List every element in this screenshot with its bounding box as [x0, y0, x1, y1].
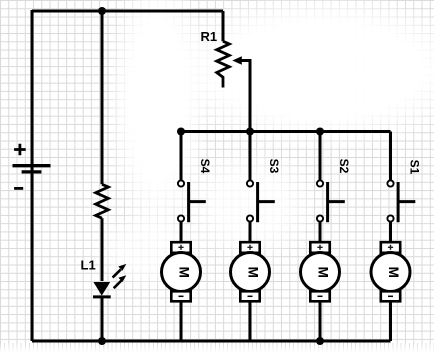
- wire motor M1 to bottom bus: [389, 301, 392, 341]
- wire R1 wiper to switch bus: [241, 61, 251, 132]
- wire motor M3 to bottom bus: [249, 301, 252, 341]
- svg-text:M: M: [315, 267, 330, 278]
- svg-text:S1: S1: [408, 160, 422, 175]
- node junction top at LED branch: [98, 7, 106, 15]
- wire S2 to motor M2: [319, 222, 322, 242]
- wire motor M4 to bottom bus: [180, 301, 183, 341]
- wire left vertical battery branch: [31, 10, 34, 341]
- svg-text:M: M: [176, 267, 191, 278]
- node junction switch bus left end: [177, 128, 185, 136]
- wire top to potentiometer R1: [222, 11, 225, 41]
- resistor (unlabeled) in LED branch: [96, 184, 109, 218]
- battery B1: [13, 144, 51, 189]
- wire S4 to motor M4: [180, 222, 183, 242]
- wire switch bus horizontal: [181, 130, 391, 133]
- switch S2: [317, 132, 345, 223]
- switch S3: [247, 132, 275, 223]
- svg-text:M: M: [245, 267, 260, 278]
- wire LED to bottom bus: [101, 297, 104, 341]
- svg-text:R1: R1: [201, 29, 218, 44]
- svg-text:M: M: [386, 267, 401, 278]
- wire bottom bus: [32, 340, 391, 343]
- potentiometer R1: [217, 41, 242, 87]
- node junction switch bus at S2 branch: [316, 128, 324, 136]
- svg-text:L1: L1: [81, 258, 96, 273]
- LED L1: [93, 264, 126, 297]
- switch S1: [387, 132, 415, 223]
- wire S3 to motor M3: [249, 222, 252, 242]
- motor M2: [301, 242, 340, 301]
- switch S4: [178, 132, 206, 223]
- node junction bottom bus at motor M3 branch: [316, 337, 324, 345]
- node junction switch bus at R1 wiper: [246, 128, 254, 136]
- svg-text:S2: S2: [337, 159, 351, 174]
- wire top horizontal from battery branch to R1: [32, 10, 223, 13]
- motor M3: [231, 242, 270, 301]
- wire motor M2 to bottom bus: [319, 301, 322, 341]
- wire LED branch upper: [101, 11, 104, 184]
- svg-text:S3: S3: [267, 159, 281, 174]
- motor M4: [162, 242, 201, 301]
- node junction bottom bus at LED branch: [98, 337, 106, 345]
- wire S1 to motor M1: [389, 222, 392, 242]
- wire between resistor and LED: [101, 218, 104, 281]
- motor M1: [371, 242, 410, 301]
- svg-text:S4: S4: [198, 159, 212, 174]
